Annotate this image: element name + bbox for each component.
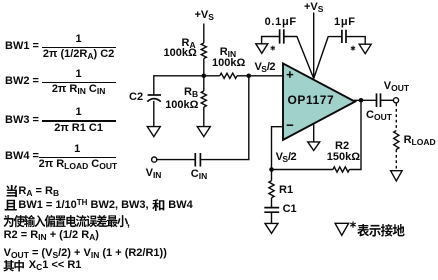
wire op-amp inverting input to node D [272, 127, 284, 170]
wire COUT to VOUT terminal [381, 99, 394, 101]
asterisk marker near 0.1uF ground [271, 46, 275, 50]
resistor RIN name label [220, 47, 236, 58]
wire node A to RIN [204, 75, 220, 77]
formula BW4 denominator [39, 159, 116, 170]
formula BW1 numerator [42, 34, 116, 45]
formula BW4 numerator [39, 144, 116, 155]
wire +VS to op-amp V+ pin [313, 13, 315, 79]
note line6 formula XC1 [29, 260, 82, 271]
wire VOUT to RLOAD dashed [395, 104, 397, 131]
resistor RB [201, 91, 206, 107]
note line5 formula VOUT [4, 248, 167, 259]
wire RIN to node B [237, 75, 249, 77]
note line2 chinese and-if [4, 196, 18, 215]
formula BW3 denominator [42, 123, 116, 134]
capacitor 0.1uF value label [265, 17, 297, 28]
wire VIN to CIN [157, 159, 195, 161]
formula BW3 fraction bar [42, 120, 116, 121]
legend chinese indicates ground [357, 221, 408, 240]
resistor RB name label [184, 87, 198, 98]
capacitor 1uF [342, 30, 346, 43]
capacitor C1 [264, 208, 279, 213]
capacitor CIN [195, 153, 200, 167]
wire R1 to C1 [271, 198, 273, 208]
ground below RB [197, 127, 210, 137]
ground for 0.1uF capacitor [256, 44, 268, 54]
wire C2 to ground [153, 101, 155, 127]
formula BW1 label [5, 41, 39, 52]
resistor R2 [333, 167, 350, 172]
formula BW1 denominator [42, 49, 116, 60]
wire 1uF to ground [346, 37, 365, 45]
label +VS right supply [304, 2, 323, 13]
capacitor C1 name label [283, 204, 297, 215]
wire RB to ground [203, 107, 205, 127]
capacitor 1uF value label [334, 17, 356, 28]
capacitor COUT [377, 93, 381, 107]
wire RLOAD to ground dashed [395, 150, 397, 171]
formula BW2 label [5, 76, 39, 87]
terminal VIN [152, 157, 157, 162]
note line2 formula BW1 [18, 200, 148, 211]
node D junction dot (VS/2 lower) [269, 167, 274, 172]
resistor R2 value label [327, 152, 360, 163]
capacitor C2 name label [129, 92, 143, 103]
capacitor COUT name label [366, 110, 392, 121]
resistor RIN [220, 73, 237, 78]
resistor R1 name label [279, 185, 293, 196]
wire R2 to node D [272, 169, 333, 171]
resistor R2 name label [335, 141, 349, 152]
op-amp plus input marker [287, 71, 294, 78]
note line1 chinese when [5, 182, 19, 201]
wire node A to RB [203, 76, 205, 91]
asterisk marker near 1uF ground [351, 46, 355, 50]
ground below C2 [147, 127, 160, 137]
formula BW2 numerator [42, 69, 116, 80]
wire node D to R1 [271, 170, 273, 181]
note line6 chinese where [3, 257, 28, 275]
wire output to R2 feedback [349, 100, 361, 169]
wire +VS to RA [203, 24, 205, 44]
wire RA to node A [203, 59, 205, 76]
node VS/2 lower label [276, 152, 296, 163]
node C output junction dot [359, 98, 364, 103]
note line2 chinese he [152, 196, 166, 215]
capacitor CIN name label [191, 169, 207, 180]
resistor RA [201, 43, 206, 59]
resistor RB value label [165, 100, 198, 111]
note line1 formula RA equals RB [18, 186, 59, 197]
note line2 formula BW4 [168, 200, 192, 211]
wire CIN to node B riser [200, 76, 248, 160]
wire C1 to ground [271, 212, 273, 223]
wire C2 branch down [153, 75, 155, 95]
formula BW4 fraction bar [39, 157, 116, 158]
label +VS left supply [195, 10, 214, 21]
note line3 comma [127, 218, 130, 229]
wire op-amp V- pin [313, 123, 315, 142]
wire V+ pin to 1uF [314, 37, 342, 79]
wire 0.1uF to V+ pin [284, 37, 314, 79]
node B junction dot (VS/2) [247, 74, 252, 79]
note line3 chinese minimize input bias current error [3, 212, 131, 231]
resistor RA value label [164, 48, 197, 59]
resistor RLOAD [394, 131, 399, 150]
formula BW2 denominator [42, 84, 116, 95]
formula BW4 label [5, 151, 39, 162]
wire node B to op-amp non-inverting input [249, 75, 283, 77]
formula BW3 label [5, 115, 39, 126]
wire op-amp output to COUT [354, 99, 377, 101]
op-amp minus input marker [287, 124, 294, 126]
resistor RLOAD name label [404, 135, 436, 146]
node VS/2 upper label [255, 62, 275, 73]
resistor RIN value label [212, 58, 245, 69]
capacitor 0.1uF [280, 29, 284, 43]
resistor RA name label [182, 38, 196, 49]
wire ground to 0.1uF [262, 37, 280, 44]
op-amp U1 name label OP1177 [288, 94, 335, 107]
node A junction dot [202, 74, 207, 79]
wire node A left segment to C2 branch [154, 75, 204, 77]
ground below C1 [265, 223, 278, 233]
formula BW1 fraction bar [42, 47, 116, 48]
terminal VOUT label [384, 81, 409, 92]
op-amp U1 OP1177 body [283, 63, 355, 139]
terminal VOUT [393, 98, 398, 103]
ground below op-amp V- [308, 142, 320, 151]
terminal VIN label [146, 168, 162, 179]
capacitor C2 [148, 94, 161, 96]
formula BW3 numerator [42, 107, 116, 118]
note line4 formula R2 [4, 230, 99, 241]
ground for 1uF capacitor [359, 44, 371, 54]
ground below RLOAD [391, 171, 403, 181]
resistor R1 [269, 181, 274, 198]
formula BW2 fraction bar [42, 82, 116, 83]
